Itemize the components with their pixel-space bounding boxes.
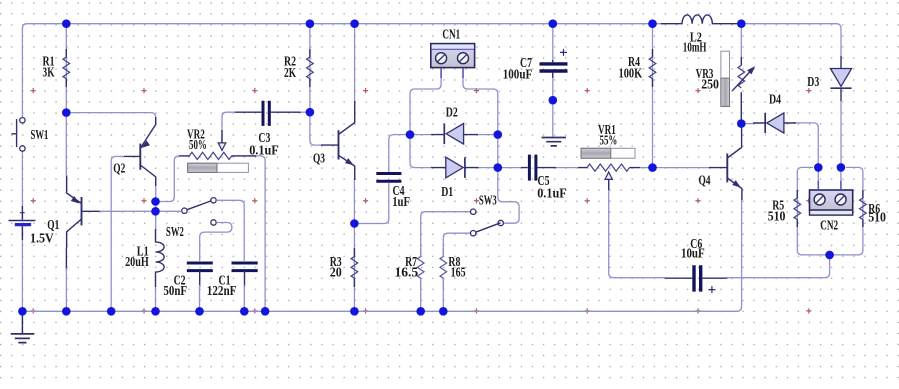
wire: node G to SW3 common xyxy=(498,168,519,224)
node I: Q4 collector/VR3/D4 xyxy=(737,119,746,128)
resistor R2 xyxy=(307,57,314,79)
ground (rail) xyxy=(21,311,23,333)
node B: Q1 base/SW2 xyxy=(151,207,160,216)
wire: node F to node G xyxy=(497,135,499,168)
wire: C4 top to node E xyxy=(389,135,410,172)
wire: battery to SW1 xyxy=(21,152,23,220)
transistor Q4 xyxy=(726,154,728,183)
svg-text:510: 510 xyxy=(868,210,886,225)
svg-text:16.5: 16.5 xyxy=(395,264,419,279)
wire: Q1 emitter to node A xyxy=(65,113,67,176)
wire: positive top rail with SW1 drop xyxy=(22,24,664,118)
wire: top rail right segment with D3 drop xyxy=(739,24,841,56)
wire: R1 branch from top rail to node A xyxy=(65,24,67,113)
wire: node E to D2 cathode xyxy=(410,134,431,136)
diode D4 xyxy=(767,113,784,133)
wire: VR2 wiper to C3 left xyxy=(222,112,235,143)
svg-text:100uF: 100uF xyxy=(503,67,533,82)
capacitor C1 xyxy=(232,263,258,271)
wire: R8 to ground rail xyxy=(442,278,444,312)
node H: R4/VR1/Q4 xyxy=(648,163,657,172)
wire: node E to D1 anode xyxy=(410,135,431,168)
node: gnd R7 xyxy=(416,307,425,316)
wire: node H to Q4 base xyxy=(653,167,710,169)
capacitor C5 xyxy=(529,155,536,181)
svg-text:55%: 55% xyxy=(600,133,618,148)
node D: Q3/C4/R3 xyxy=(350,219,359,228)
svg-text:D4: D4 xyxy=(769,92,781,107)
wire: C5 right to VR1 left xyxy=(555,167,578,169)
wire: node B to VR2 left terminal xyxy=(156,156,191,202)
wire: D1 cathode to node G xyxy=(478,167,498,169)
wire: top rail to Q3 collector xyxy=(354,24,356,101)
svg-text:Q4: Q4 xyxy=(699,173,711,188)
wire: R5 parallel loop xyxy=(797,167,829,255)
svg-text:50nF: 50nF xyxy=(163,283,187,298)
wire: Q1 collector to ground rail xyxy=(65,268,67,311)
svg-text:122nF: 122nF xyxy=(207,283,237,298)
wire: D3 cathode to CN2 pin2 xyxy=(840,100,842,167)
wire: C7 bottom to ground symbol xyxy=(552,72,554,137)
svg-text:50%: 50% xyxy=(189,137,207,152)
wire: Q2 collector down through node B to L1 xyxy=(155,177,157,231)
node: rail-C7 xyxy=(549,19,558,28)
svg-text:100K: 100K xyxy=(619,66,643,81)
node C: C3/R2/Q3 xyxy=(306,108,315,117)
wire: R6 parallel loop xyxy=(830,167,863,255)
wire: C3 right to node C xyxy=(300,111,310,113)
node: rail-R2 xyxy=(306,19,315,28)
resistor R8 xyxy=(440,257,447,279)
node: gnd C2 xyxy=(195,307,204,316)
svg-text:2K: 2K xyxy=(284,65,297,80)
wire: SW2 throw2 to C2 xyxy=(200,223,232,262)
capacitor C7 xyxy=(540,64,568,71)
svg-text:250: 250 xyxy=(701,77,719,92)
node: gnd VR2 xyxy=(261,307,270,316)
wire: SW3 throw2 to R8 xyxy=(443,233,470,257)
node F: CN1/D2 xyxy=(494,130,503,139)
node: CN2 bottom xyxy=(825,251,834,260)
node E: CN1/D2/D1/C4 xyxy=(406,130,415,139)
wire: SW2 pole from node B xyxy=(156,210,182,212)
wire: L1 bottom to ground rail xyxy=(155,286,157,311)
node: CN2 pin1 xyxy=(814,163,823,172)
resistor R3 xyxy=(351,257,358,279)
svg-text:D3: D3 xyxy=(807,74,819,89)
capacitor C6 xyxy=(694,265,701,291)
node: rail-R1 xyxy=(62,19,71,28)
wire: D2 anode to node F xyxy=(477,134,498,136)
connector CN2 xyxy=(810,190,853,210)
wire: VR2 right terminal to ground rail xyxy=(231,156,265,311)
svg-text:20: 20 xyxy=(330,265,342,280)
svg-text:CN2: CN2 xyxy=(820,218,838,233)
svg-text:510: 510 xyxy=(768,209,786,224)
wire: node G to C5 left xyxy=(498,167,521,169)
node: CN2 pin2 xyxy=(837,163,846,172)
battery B1 xyxy=(20,212,25,214)
svg-text:D2: D2 xyxy=(446,105,458,120)
svg-text:0.1uF: 0.1uF xyxy=(537,186,567,201)
wire: CN1 pin1 to node E xyxy=(410,77,441,135)
potentiometer VR2 xyxy=(189,152,231,159)
node: gnd battery xyxy=(18,307,27,316)
svg-text:1.5V: 1.5V xyxy=(30,231,54,246)
resistor R7 xyxy=(417,257,424,279)
wire: node D to C4 bottom xyxy=(354,183,388,224)
svg-text:Q3: Q3 xyxy=(313,151,325,166)
wire: ground rail with riser to Q4 emitter xyxy=(22,199,741,311)
svg-text:165: 165 xyxy=(451,264,466,279)
potentiometer VR3 xyxy=(738,65,745,88)
node: gnd Q2 base xyxy=(107,307,116,316)
wire: top rail to VR3 top xyxy=(740,28,742,57)
inductor L1 xyxy=(156,229,165,287)
node: gnd Q1 xyxy=(62,307,71,316)
diode D3 xyxy=(830,69,851,87)
ground (C7) xyxy=(542,138,567,146)
wire: battery to ground rail xyxy=(21,226,23,311)
wire: C2 to ground rail xyxy=(199,285,201,311)
node: gnd L1 xyxy=(151,307,160,316)
svg-text:D1: D1 xyxy=(441,184,453,199)
node: Q2 collector/VR2 xyxy=(151,197,160,206)
switch SW1 xyxy=(20,118,25,123)
node G: D1/C5/SW3 xyxy=(494,163,503,172)
wire: C7 top from rail xyxy=(552,24,554,62)
svg-text:Q2: Q2 xyxy=(113,161,125,176)
wire: C1 to ground rail xyxy=(243,285,245,311)
wire: CN2 pin2 stub xyxy=(840,167,842,181)
wire: node A to Q2 emitter xyxy=(66,113,155,125)
node: gnd R8 xyxy=(439,307,448,316)
diode D2 xyxy=(446,123,463,144)
svg-text:SW2: SW2 xyxy=(166,224,184,239)
resistor R1 xyxy=(63,57,70,79)
svg-text:3K: 3K xyxy=(43,65,56,80)
wire: D4 anode to CN2 pin1 xyxy=(795,123,818,167)
inductor L2 xyxy=(661,15,740,24)
wire: VR1 wiper to C6 left xyxy=(609,182,665,278)
wire: CN2 pin1 stub xyxy=(817,167,819,181)
diode D1 xyxy=(446,157,463,178)
capacitor C2 xyxy=(187,263,213,271)
svg-text:20uH: 20uH xyxy=(125,254,149,269)
wire: R2 branch from top rail to node C xyxy=(309,24,311,113)
node: C7 bottom xyxy=(549,96,558,105)
wire: Q3 emitter to node D xyxy=(353,179,355,224)
wire: R7 to ground rail xyxy=(420,278,422,312)
resistor R5 xyxy=(794,198,801,220)
svg-text:SW1: SW1 xyxy=(31,127,49,142)
wire: CN2 bottom node to C6 right xyxy=(727,255,830,278)
svg-text:10uF: 10uF xyxy=(681,246,705,261)
wire: node C to Q3 base xyxy=(310,112,322,145)
node: rail-L2 left xyxy=(648,19,657,28)
capacitor C4 xyxy=(376,174,401,182)
wire: node I to D4 cathode xyxy=(741,123,753,125)
potentiometer VR1 xyxy=(587,164,629,171)
node: rail-Q3 xyxy=(350,19,359,28)
wire: SW2 throw1 to C1 xyxy=(216,200,244,261)
wire: Q2 base to ground rail xyxy=(111,156,124,311)
node: gnd R3 xyxy=(350,307,359,316)
node A: R1/Q1/Q2 xyxy=(62,108,71,117)
transistor Q2 xyxy=(139,144,141,170)
switch SW3 xyxy=(471,209,476,214)
wire: VR1 right to node H xyxy=(640,167,653,169)
resistor R6 xyxy=(860,198,867,220)
wire: SW3 throw1 to R7 xyxy=(421,212,471,257)
svg-text:1uF: 1uF xyxy=(392,194,410,209)
svg-text:10mH: 10mH xyxy=(683,40,707,55)
resistor R4 xyxy=(649,57,656,79)
wire: R3 from node D to ground rail xyxy=(353,224,355,312)
switch SW2 xyxy=(182,208,187,213)
node: gnd C1 xyxy=(240,307,249,316)
svg-text:SW3: SW3 xyxy=(479,193,497,208)
transistor Q1 xyxy=(81,197,83,225)
wire: CN1 pin2 to node F xyxy=(463,77,498,135)
wire: Q1 base to node B xyxy=(99,210,156,212)
node: rail-L2 right xyxy=(737,19,746,28)
transistor Q3 xyxy=(338,130,340,159)
wire: top rail through R4 to node H xyxy=(652,24,654,168)
capacitor C3 xyxy=(263,101,269,126)
svg-text:CN1: CN1 xyxy=(442,27,460,42)
connector CN1 xyxy=(431,44,475,68)
svg-text:0.1uF: 0.1uF xyxy=(249,143,279,158)
